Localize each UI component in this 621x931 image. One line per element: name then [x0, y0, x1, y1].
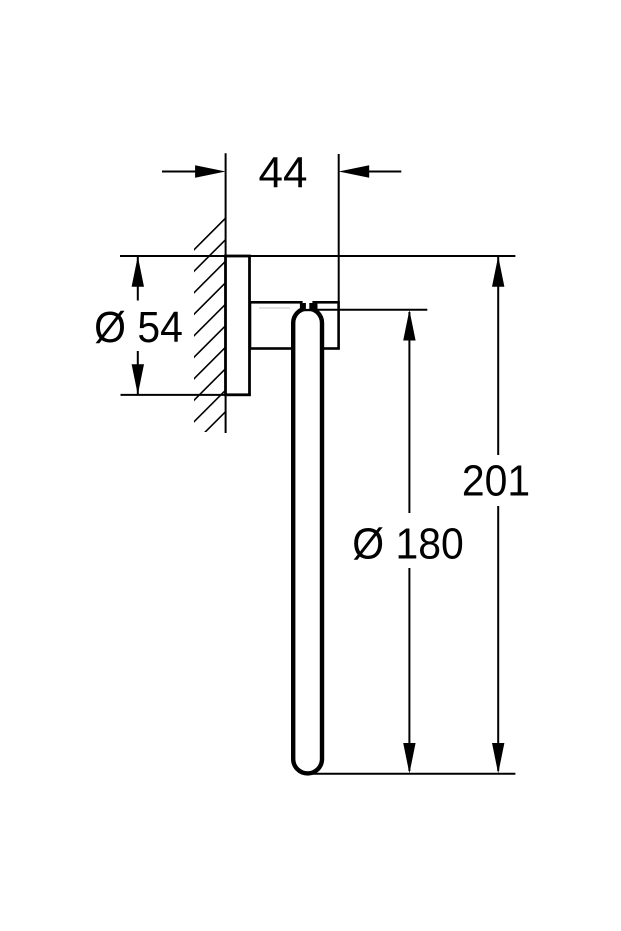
- svg-text:201: 201: [462, 457, 530, 506]
- svg-text:Ø 54: Ø 54: [94, 303, 183, 352]
- svg-text:Ø 180: Ø 180: [352, 520, 463, 569]
- svg-text:44: 44: [259, 149, 308, 198]
